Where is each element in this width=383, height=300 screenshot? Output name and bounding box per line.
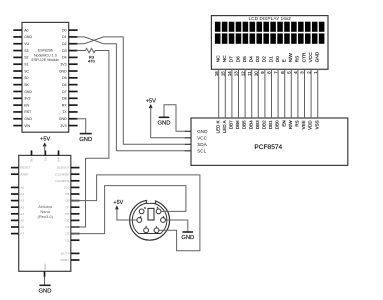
svg-text:GND: GND: [158, 121, 171, 127]
svg-text:+5V: +5V: [40, 137, 50, 143]
svg-text:D6: D6: [65, 212, 69, 216]
svg-text:AREF: AREF: [20, 172, 28, 176]
svg-text:D3: D3: [65, 232, 69, 236]
svg-text:3V3: 3V3: [30, 157, 34, 162]
svg-text:A1: A1: [20, 192, 24, 196]
svg-text:RESET: RESET: [20, 166, 30, 170]
svg-text:D5: D5: [62, 76, 67, 80]
svg-text:D6: D6: [62, 83, 67, 87]
svg-text:GND: GND: [39, 288, 52, 294]
svg-text:LED A: LED A: [222, 120, 227, 133]
svg-text:EN: EN: [24, 103, 29, 107]
svg-text:CTR: CTR: [301, 52, 307, 62]
svg-text:A0: A0: [20, 186, 24, 190]
svg-text:VDD: VDD: [308, 120, 313, 130]
svg-text:VCC: VCC: [308, 52, 314, 63]
svg-text:D2: D2: [65, 238, 69, 242]
svg-text:D6: D6: [235, 56, 241, 62]
svg-text:D1/TX: D1/TX: [61, 252, 70, 256]
svg-text:3V3: 3V3: [24, 97, 30, 101]
svg-text:+5V: +5V: [113, 200, 123, 206]
svg-text:NC: NC: [222, 55, 228, 62]
svg-text:A6: A6: [20, 225, 24, 229]
svg-text:D9: D9: [65, 192, 69, 196]
svg-text:SDA: SDA: [197, 142, 207, 147]
svg-text:11: 11: [247, 71, 252, 76]
svg-text:+5V: +5V: [146, 99, 156, 105]
svg-text:3V3: 3V3: [60, 63, 66, 67]
svg-text:D7: D7: [62, 90, 67, 94]
svg-text:12: 12: [240, 71, 245, 76]
svg-text:NC: NC: [216, 55, 222, 62]
svg-text:(Rev3.0): (Rev3.0): [38, 214, 54, 219]
svg-text:ESP-12E Module: ESP-12E Module: [32, 58, 60, 62]
svg-text:D3: D3: [62, 49, 67, 53]
svg-text:S1: S1: [24, 63, 28, 67]
svg-text:GND: GND: [24, 117, 32, 121]
svg-text:A3: A3: [20, 205, 24, 209]
svg-text:EN: EN: [281, 120, 286, 126]
svg-text:16: 16: [214, 71, 219, 76]
svg-text:D2: D2: [262, 56, 268, 62]
svg-text:D5: D5: [242, 56, 248, 62]
svg-text:SK: SK: [24, 83, 29, 87]
svg-text:VIN: VIN: [24, 124, 30, 128]
svg-text:DB1: DB1: [268, 120, 273, 129]
svg-text:ESP8266: ESP8266: [38, 49, 53, 53]
svg-text:D0: D0: [275, 56, 281, 62]
svg-text:D4: D4: [65, 225, 69, 229]
svg-text:S2: S2: [24, 56, 28, 60]
svg-text:SCL: SCL: [197, 148, 206, 153]
svg-text:14: 14: [227, 71, 232, 76]
svg-text:D8: D8: [62, 97, 67, 101]
svg-text:VCC: VCC: [197, 135, 207, 140]
svg-text:5V: 5V: [43, 157, 47, 161]
svg-text:DB7: DB7: [229, 120, 234, 129]
svg-text:A2: A2: [20, 199, 24, 203]
svg-text:A7: A7: [20, 232, 24, 236]
svg-text:VEE: VEE: [301, 120, 306, 129]
svg-text:GND: GND: [181, 235, 194, 241]
svg-text:DB0: DB0: [275, 120, 280, 129]
svg-text:RS: RS: [295, 56, 301, 63]
svg-text:A0: A0: [24, 28, 28, 32]
svg-text:D3: D3: [255, 56, 261, 62]
svg-text:DB5: DB5: [242, 120, 247, 129]
svg-text:15: 15: [221, 71, 226, 76]
svg-text:D5: D5: [65, 219, 69, 223]
svg-text:VSS: VSS: [314, 120, 319, 129]
svg-text:RX: RX: [62, 103, 68, 107]
svg-text:D1: D1: [62, 35, 67, 39]
svg-text:A5: A5: [20, 219, 24, 223]
svg-text:LCD DISPLAY 16x2: LCD DISPLAY 16x2: [248, 16, 291, 22]
svg-text:SC: SC: [24, 69, 29, 73]
svg-text:VU: VU: [24, 42, 29, 46]
svg-text:VIN: VIN: [57, 157, 61, 162]
svg-text:GND: GND: [43, 264, 47, 270]
svg-text:TX: TX: [62, 110, 67, 114]
svg-text:GND: GND: [59, 117, 67, 121]
svg-text:10: 10: [254, 71, 259, 76]
svg-text:GND: GND: [315, 51, 321, 62]
svg-text:RS: RS: [295, 120, 300, 126]
svg-text:470: 470: [88, 59, 95, 64]
svg-text:GND: GND: [59, 69, 67, 73]
svg-text:A4: A4: [20, 212, 24, 216]
svg-text:D7: D7: [229, 56, 235, 62]
svg-text:S0: S0: [24, 76, 28, 80]
svg-text:GND: GND: [24, 35, 32, 39]
svg-text:D0: D0: [62, 28, 67, 32]
svg-text:E: E: [282, 59, 288, 62]
svg-text:D2: D2: [62, 42, 67, 46]
svg-text:D4: D4: [249, 56, 255, 62]
svg-text:D11/MOSI: D11/MOSI: [56, 179, 70, 183]
svg-text:RST: RST: [24, 110, 32, 114]
svg-text:D7: D7: [65, 205, 69, 209]
svg-text:D8: D8: [65, 199, 69, 203]
svg-text:D10: D10: [64, 186, 70, 190]
svg-text:13: 13: [234, 71, 239, 76]
svg-text:R/W: R/W: [288, 53, 294, 63]
svg-text:LED K: LED K: [215, 120, 220, 133]
svg-text:PCF8574: PCF8574: [254, 144, 282, 151]
svg-text:DB3: DB3: [255, 120, 260, 129]
svg-text:DB2: DB2: [262, 120, 267, 129]
svg-text:S3: S3: [24, 49, 28, 53]
svg-text:R/W: R/W: [288, 120, 293, 129]
svg-text:D4: D4: [62, 56, 67, 60]
svg-text:3V3: 3V3: [60, 124, 66, 128]
svg-text:GND: GND: [197, 129, 208, 134]
svg-text:D1: D1: [268, 56, 274, 62]
svg-text:D13/SCK: D13/SCK: [57, 166, 70, 170]
svg-text:D0/RX: D0/RX: [60, 258, 69, 262]
svg-text:DB4: DB4: [248, 120, 253, 129]
svg-text:GND: GND: [79, 137, 92, 143]
svg-text:D12/MISO: D12/MISO: [55, 172, 70, 176]
svg-text:GND: GND: [24, 90, 32, 94]
svg-text:DB6: DB6: [235, 120, 240, 129]
svg-text:NodeMCU 1.0: NodeMCU 1.0: [34, 53, 57, 57]
